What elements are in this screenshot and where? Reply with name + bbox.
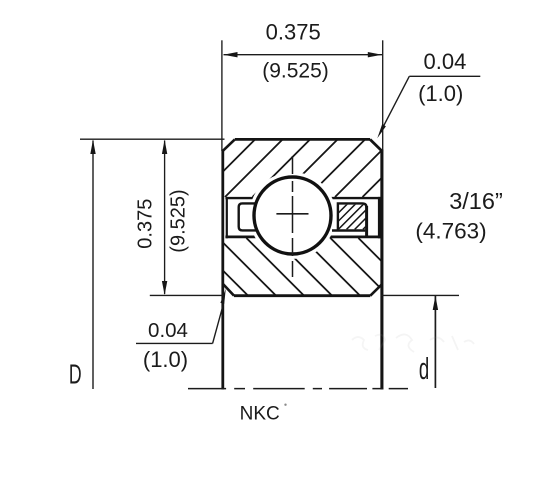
block top edge [235, 138, 370, 141]
d dimension extension line [381, 294, 460, 296]
left dimension line [164, 141, 166, 295]
cage channel left [239, 203, 259, 230]
d dimension line [434, 296, 436, 388]
bottom-left chamfer [223, 284, 234, 296]
left edge / bore line [221, 150, 224, 390]
raceway band bottom line [225, 235, 380, 238]
left dimension down arrow [162, 281, 167, 295]
seal section hatch [322, 204, 397, 230]
small speck [284, 404, 286, 406]
seal right edge [365, 206, 368, 236]
right edge / bore line [380, 150, 383, 390]
top-right chamfer leader [384, 76, 410, 125]
race groove white gap [249, 172, 336, 259]
svg-text:0.375: 0.375 [266, 20, 321, 45]
ball vertical centerline [292, 156, 294, 277]
svg-text:(1.0): (1.0) [143, 347, 188, 372]
left dimension up arrow [162, 140, 167, 154]
left dimension lower extension line [150, 294, 225, 296]
d dimension up arrow [433, 296, 438, 310]
top dimension line [224, 54, 383, 56]
outer ring upper section hatch [198, 139, 421, 197]
svg-text:0.04: 0.04 [423, 49, 466, 74]
svg-text:0.375: 0.375 [135, 199, 157, 249]
top-right chamfer leader arrow [377, 124, 386, 138]
top dimension left extension line [221, 40, 223, 151]
bottom-right chamfer [370, 284, 382, 295]
top dimension right arrow [368, 52, 382, 57]
top-left chamfer [223, 139, 235, 150]
seal bottom line [332, 229, 365, 232]
svg-text:(4.763): (4.763) [415, 218, 486, 243]
svg-text:3/16”: 3/16” [449, 188, 503, 214]
svg-text:NKC: NKC [240, 404, 280, 425]
D dimension up arrow [90, 140, 95, 154]
top-right chamfer callout line [409, 75, 480, 77]
inner ring lower section hatch [190, 238, 416, 296]
ball crosshair tick [276, 213, 308, 215]
top dimension left arrow [223, 52, 237, 57]
top dimension right extension line [382, 40, 384, 151]
svg-text:D: D [69, 359, 82, 390]
top-right chamfer [370, 139, 382, 151]
svg-text:0.04: 0.04 [148, 319, 188, 342]
left dimension upper extension line [80, 138, 225, 140]
bottom-left callout underline [136, 342, 213, 344]
faint watermark smudge [352, 334, 474, 352]
ball [254, 177, 331, 254]
svg-text:(9.525): (9.525) [262, 60, 329, 83]
bottom-left leader arrow [220, 289, 225, 304]
bottom bore centerline [188, 388, 408, 390]
D dimension line [92, 141, 94, 390]
bottom-left callout leader [213, 304, 224, 343]
band left closure [226, 197, 228, 238]
seal section outline [338, 203, 367, 231]
svg-text:(1.0): (1.0) [418, 81, 463, 106]
svg-text:d: d [419, 352, 429, 386]
raceway band top line [225, 197, 380, 199]
band right closure [378, 197, 381, 238]
block bottom edge [234, 294, 370, 297]
svg-text:(9.525): (9.525) [167, 189, 189, 252]
